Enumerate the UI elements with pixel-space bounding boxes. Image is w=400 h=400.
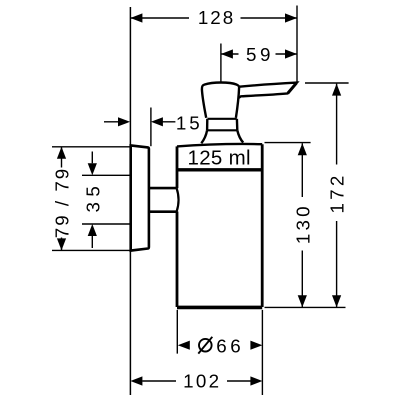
wall reference line <box>129 7 131 395</box>
extension ticks left <box>52 147 130 251</box>
pump neck line <box>208 118 237 120</box>
svg-text:172: 172 <box>327 173 348 214</box>
svg-text:35: 35 <box>82 181 103 213</box>
container body <box>177 144 262 307</box>
dimension diameter 66 symbol <box>198 337 212 354</box>
dimension diameter 66 line <box>178 341 263 350</box>
dimension 79/79 line <box>57 147 66 251</box>
dimension 15 line <box>104 108 175 147</box>
dimension 102 line <box>130 376 262 385</box>
svg-text:59: 59 <box>246 44 274 65</box>
extension lines bottom <box>177 310 262 395</box>
svg-text:130: 130 <box>292 203 313 244</box>
arm bracket <box>149 188 179 212</box>
pump lever <box>237 83 297 100</box>
pump head <box>202 83 239 118</box>
dimension 59 line <box>221 44 297 83</box>
svg-text:66: 66 <box>216 335 244 356</box>
dimension 172 line <box>305 83 349 307</box>
dimension 35 line <box>88 152 97 249</box>
svg-text:102: 102 <box>183 371 221 392</box>
pump flare <box>201 130 243 143</box>
svg-text:128: 128 <box>198 7 235 28</box>
wall plate <box>131 145 149 250</box>
svg-text:15: 15 <box>176 113 203 134</box>
svg-text:79 / 79: 79 / 79 <box>51 167 72 238</box>
dimension 130 line <box>265 143 346 308</box>
svg-text:125 ml: 125 ml <box>188 147 251 170</box>
pump collar <box>207 119 237 131</box>
dimension 128 line <box>130 6 297 83</box>
